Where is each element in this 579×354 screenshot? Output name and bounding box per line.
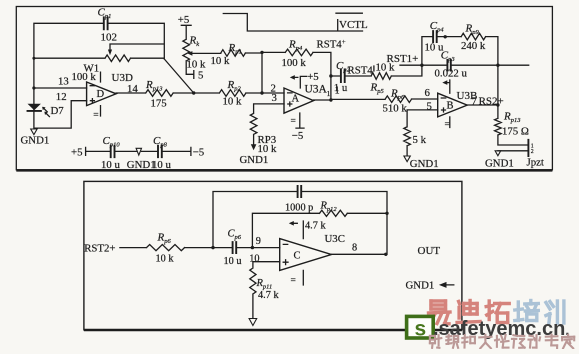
svg-text:RST4+: RST4+	[317, 38, 346, 51]
svg-text:13: 13	[58, 75, 69, 87]
svg-text:8: 8	[352, 242, 357, 253]
svg-text:U3C: U3C	[325, 233, 345, 245]
svg-text:−5: −5	[193, 147, 205, 159]
svg-text:102: 102	[101, 32, 118, 44]
svg-text:100 k: 100 k	[72, 71, 97, 83]
svg-text:10 u: 10 u	[224, 256, 242, 267]
svg-text:RST1+: RST1+	[387, 53, 419, 65]
svg-text:B: B	[447, 101, 454, 112]
svg-text:GND1: GND1	[240, 154, 269, 166]
svg-text:=: =	[93, 110, 98, 120]
svg-text:10 k: 10 k	[187, 59, 206, 71]
svg-text:A: A	[292, 94, 300, 105]
svg-text:175 Ω: 175 Ω	[502, 126, 529, 138]
svg-text:GND1: GND1	[485, 157, 514, 169]
svg-text:5: 5	[427, 100, 432, 112]
svg-text:12: 12	[56, 91, 67, 103]
svg-text:14: 14	[127, 83, 138, 95]
svg-text:10 u: 10 u	[425, 42, 444, 54]
svg-text:4.7 k: 4.7 k	[258, 290, 279, 301]
svg-text:1000 p: 1000 p	[285, 203, 313, 214]
svg-text:510 k: 510 k	[383, 103, 408, 115]
svg-text:175: 175	[151, 97, 167, 109]
svg-text:OUT: OUT	[418, 245, 441, 257]
svg-text:=: =	[291, 276, 296, 286]
svg-text:D7: D7	[51, 105, 65, 117]
svg-text:10 u: 10 u	[152, 159, 171, 171]
svg-text:100 k: 100 k	[282, 57, 307, 69]
svg-text:U3A: U3A	[305, 84, 328, 96]
svg-text:2: 2	[531, 149, 534, 155]
svg-text:GND1: GND1	[406, 280, 435, 292]
svg-text:1: 1	[327, 89, 331, 98]
svg-text:+5: +5	[178, 14, 190, 26]
svg-text:s: s	[415, 317, 427, 340]
svg-text:1 u: 1 u	[334, 82, 348, 94]
svg-text:240 k: 240 k	[461, 40, 486, 52]
svg-text:GND1: GND1	[410, 158, 439, 170]
svg-text:RST2+: RST2+	[84, 243, 115, 255]
svg-text:+5: +5	[307, 71, 319, 83]
svg-text:RST4: RST4	[348, 65, 374, 77]
svg-text:C: C	[294, 251, 301, 262]
svg-text:3: 3	[272, 92, 277, 104]
svg-text:VCTL: VCTL	[339, 19, 368, 31]
svg-text:5 k: 5 k	[413, 134, 427, 146]
svg-text:5: 5	[198, 70, 203, 82]
svg-text:10 u: 10 u	[101, 159, 120, 171]
svg-text:10: 10	[249, 253, 259, 264]
svg-text:Jpzt: Jpzt	[527, 157, 544, 169]
svg-text:10 k: 10 k	[156, 254, 175, 265]
svg-text:−5: −5	[292, 130, 304, 142]
svg-text:=: =	[291, 117, 296, 127]
svg-text:+5: +5	[71, 147, 83, 159]
svg-text:6: 6	[425, 87, 431, 99]
svg-text:GND1: GND1	[21, 135, 50, 147]
svg-text:D: D	[97, 89, 105, 100]
svg-text:10 k: 10 k	[211, 55, 230, 67]
svg-text:=: =	[445, 120, 450, 130]
svg-text:4.7 k: 4.7 k	[305, 220, 326, 231]
svg-text:10 k: 10 k	[223, 96, 242, 108]
svg-text:0.022 u: 0.022 u	[435, 68, 468, 80]
svg-text:RS2+: RS2+	[479, 95, 504, 107]
svg-text:7: 7	[472, 95, 478, 107]
svg-text:9: 9	[256, 236, 261, 247]
